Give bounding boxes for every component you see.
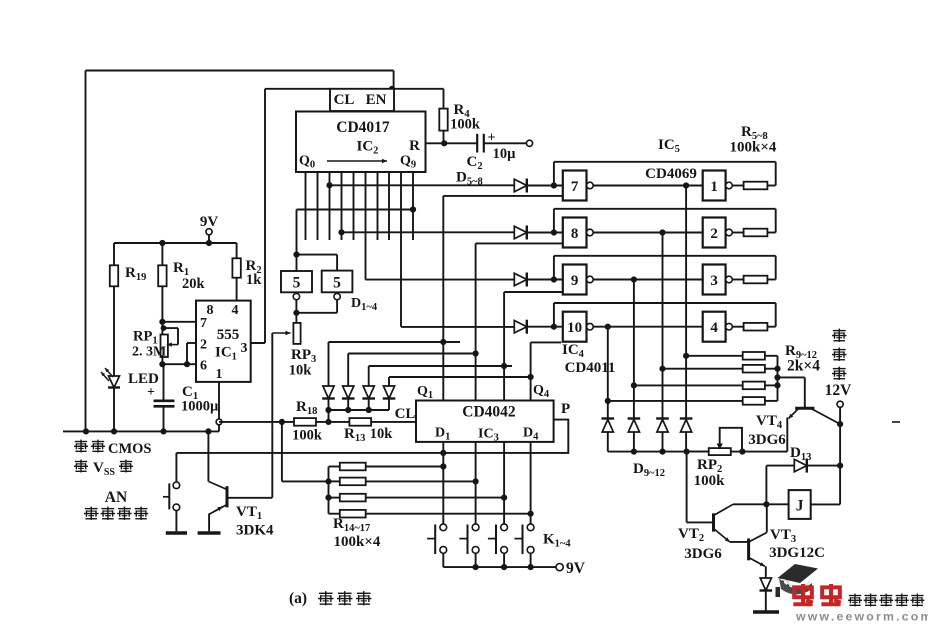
svg-text:8: 8 [571, 226, 579, 242]
svg-text:5: 5 [333, 275, 341, 292]
svg-text:AN: AN [105, 489, 127, 506]
svg-text:3: 3 [710, 273, 718, 289]
svg-text:2: 2 [200, 338, 207, 353]
svg-text:1k: 1k [246, 272, 262, 288]
svg-text:+: + [147, 385, 155, 400]
svg-text:CD4069: CD4069 [645, 166, 697, 182]
svg-text:CL: CL [395, 406, 416, 422]
svg-text:8: 8 [207, 303, 214, 318]
svg-text:6: 6 [200, 359, 207, 374]
svg-text:1: 1 [216, 367, 223, 382]
svg-text:+: + [488, 131, 496, 146]
svg-text:4: 4 [710, 320, 718, 336]
svg-text:CL: CL [334, 92, 355, 108]
svg-text:9V: 9V [566, 560, 586, 577]
svg-text:2k×4: 2k×4 [787, 358, 820, 375]
svg-text:J: J [796, 498, 804, 515]
svg-text:100k: 100k [694, 473, 726, 489]
svg-text:CD4017: CD4017 [336, 119, 390, 136]
svg-text:4: 4 [232, 303, 239, 318]
svg-text:555: 555 [217, 327, 240, 343]
svg-text:CD4042: CD4042 [462, 404, 516, 421]
svg-text:3DG6: 3DG6 [684, 546, 722, 562]
svg-text:3: 3 [241, 341, 248, 356]
svg-text:LED: LED [128, 371, 159, 387]
svg-text:5: 5 [293, 275, 301, 292]
svg-text:R: R [409, 138, 420, 154]
svg-text:(a): (a) [289, 590, 307, 607]
svg-text:20k: 20k [182, 276, 206, 292]
svg-text:10: 10 [567, 320, 582, 336]
svg-text:EN: EN [366, 92, 387, 108]
svg-text:3DK4: 3DK4 [236, 523, 274, 539]
svg-text:CMOS: CMOS [108, 441, 152, 457]
svg-text:2: 2 [710, 226, 718, 242]
svg-text:1: 1 [710, 179, 718, 195]
svg-text:10k: 10k [370, 426, 394, 442]
svg-text:100k: 100k [450, 117, 481, 133]
svg-text:1000µ: 1000µ [181, 399, 219, 415]
svg-text:3DG6: 3DG6 [748, 432, 786, 448]
svg-text:3DG12C: 3DG12C [769, 545, 825, 561]
svg-text:100k×4: 100k×4 [730, 140, 777, 156]
svg-text:9: 9 [571, 273, 579, 289]
svg-text:10k: 10k [289, 363, 313, 379]
svg-text:100k: 100k [292, 428, 323, 444]
svg-text:12V: 12V [825, 382, 853, 399]
svg-text:10µ: 10µ [493, 146, 517, 162]
svg-text:P: P [561, 401, 570, 417]
svg-text:7: 7 [200, 316, 207, 331]
svg-text:9V: 9V [200, 214, 219, 230]
svg-text:100k×4: 100k×4 [334, 534, 381, 550]
svg-text:www.eeworm.com: www.eeworm.com [795, 610, 928, 624]
svg-text:7: 7 [571, 179, 579, 195]
svg-text:2. 3M: 2. 3M [132, 345, 166, 360]
